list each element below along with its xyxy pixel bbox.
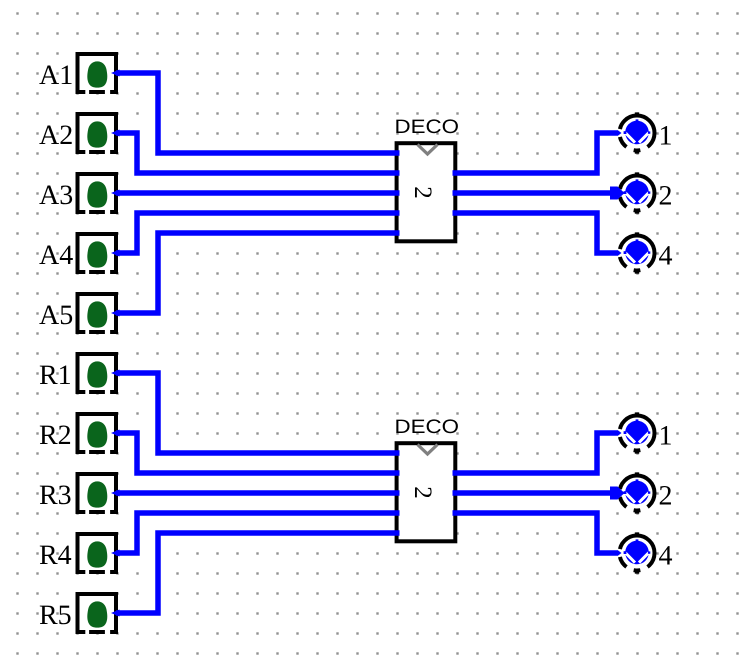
wire U2 out2 to LED D6 [453, 487, 625, 500]
LED D2 bulb [624, 179, 651, 204]
wire A4 to U1 in4 [111, 213, 400, 257]
LED D2 ring [619, 172, 654, 213]
wire A3 to U1 in3 [111, 190, 400, 197]
svg-text:A4: A4 [39, 240, 73, 271]
decoder U2 notch [418, 445, 438, 455]
svg-text:R2: R2 [39, 420, 72, 451]
wire A5 to U1 in5 [111, 233, 400, 317]
wire R1 to U2 in1 [111, 370, 400, 454]
svg-text:A3: A3 [39, 180, 73, 211]
LED D1 bulb [624, 119, 651, 144]
wire A2 to U1 in2 [111, 130, 400, 174]
svg-text:2: 2 [409, 486, 436, 499]
LED D6 bulb [624, 479, 651, 504]
wire R5 to U2 in5 [111, 533, 400, 617]
wire R2 to U2 in2 [111, 430, 400, 474]
svg-text:4: 4 [659, 241, 673, 272]
svg-text:2: 2 [659, 181, 673, 212]
wire U1 out1 to LED D1 [453, 130, 622, 173]
button R3 [78, 474, 117, 515]
svg-text:A5: A5 [39, 300, 73, 331]
svg-text:R5: R5 [39, 600, 72, 631]
LED D4 ring [619, 232, 654, 273]
decoder U1 body [397, 143, 456, 241]
wire U2 out3 to LED D7 [453, 513, 622, 556]
decoder U1 notch [418, 145, 438, 155]
wire U2 out1 to LED D5 [453, 430, 622, 473]
button A1 [78, 54, 117, 95]
LED D7 ring [619, 532, 654, 573]
svg-text:DECO: DECO [395, 416, 460, 438]
LED D6 ring [619, 472, 654, 513]
svg-text:DECO: DECO [395, 116, 460, 138]
svg-text:1: 1 [659, 421, 673, 452]
LED D5 bulb [624, 419, 651, 444]
svg-text:R3: R3 [39, 480, 72, 511]
svg-text:2: 2 [659, 481, 673, 512]
wire U1 out2 to LED D2 [453, 187, 625, 200]
svg-text:4: 4 [659, 541, 673, 572]
button A4 [78, 234, 117, 275]
button R2 [78, 414, 117, 455]
wire A1 to U1 in1 [111, 70, 400, 154]
button A2 [78, 114, 117, 155]
svg-text:A2: A2 [39, 120, 73, 151]
svg-text:R1: R1 [39, 360, 72, 391]
wire U1 out3 to LED D4 [453, 213, 622, 256]
button R1 [78, 354, 117, 395]
svg-text:2: 2 [409, 186, 436, 199]
LED D1 ring [619, 112, 654, 153]
svg-text:A1: A1 [39, 60, 73, 91]
LED D5 ring [619, 412, 654, 453]
svg-text:1: 1 [659, 121, 673, 152]
button R5 [78, 594, 117, 635]
button A5 [78, 294, 117, 335]
button R4 [78, 534, 117, 575]
wire R3 to U2 in3 [111, 490, 400, 497]
svg-text:R4: R4 [39, 540, 72, 571]
decoder U2 body [397, 443, 456, 541]
LED D7 bulb [624, 539, 651, 564]
LED D4 bulb [624, 239, 651, 264]
wire R4 to U2 in4 [111, 513, 400, 557]
button A3 [78, 174, 117, 215]
